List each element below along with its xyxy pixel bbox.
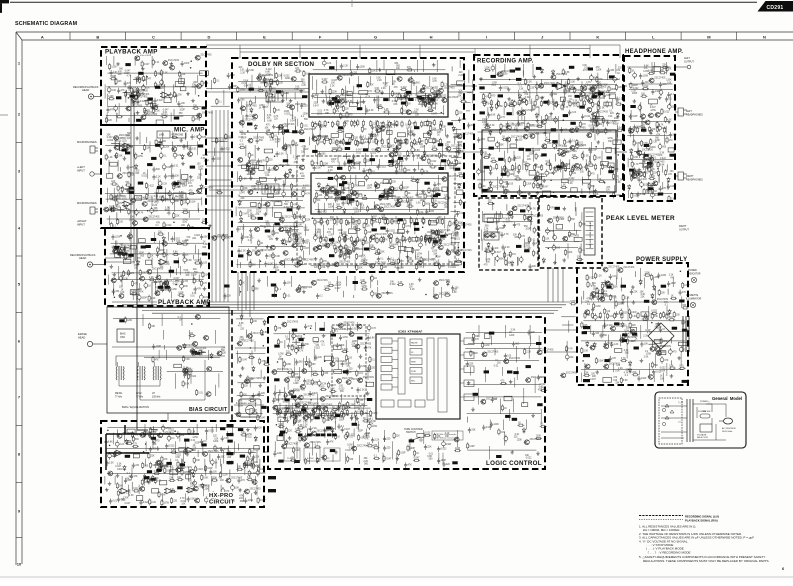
capacitor C261 <box>167 434 171 442</box>
resistor R466 <box>552 104 559 106</box>
capacitor C339 <box>313 234 317 242</box>
wire <box>478 131 619 133</box>
resistor R329 <box>257 89 264 91</box>
svg-text:0.01: 0.01 <box>295 378 300 380</box>
wire <box>179 433 181 442</box>
capacitor C297 <box>300 103 303 109</box>
wire <box>380 128 382 140</box>
wire <box>107 427 258 429</box>
capacitor C276 <box>244 462 247 468</box>
capacitor C278 <box>209 469 212 475</box>
resistor R449 <box>524 78 526 85</box>
resistor R257 <box>202 271 204 278</box>
wire <box>243 493 245 501</box>
svg-text:2SC1740S: 2SC1740S <box>330 243 342 245</box>
wire <box>401 259 403 268</box>
svg-text:1K: 1K <box>295 406 298 408</box>
resistor R374 <box>336 148 343 150</box>
wire <box>165 188 167 202</box>
wire <box>282 215 284 223</box>
svg-text:2.2K: 2.2K <box>151 502 156 504</box>
resistor R402 <box>437 229 439 236</box>
resistor R346 <box>255 183 262 185</box>
capacitor C350 <box>322 59 326 67</box>
transistor Q273 <box>283 251 289 256</box>
transistor Q210 <box>113 136 119 141</box>
svg-text:2SC1740S: 2SC1740S <box>439 230 451 232</box>
wire <box>108 72 203 74</box>
svg-text:0.047: 0.047 <box>406 127 412 129</box>
svg-text:2.2K: 2.2K <box>381 88 386 90</box>
svg-text:0.022: 0.022 <box>283 402 289 404</box>
junction <box>141 153 143 155</box>
capacitor C326 <box>453 134 456 140</box>
wire <box>167 370 223 372</box>
svg-text:100P: 100P <box>558 169 564 171</box>
wire <box>309 242 311 255</box>
svg-text:3.3K: 3.3K <box>359 240 364 242</box>
svg-text:2SC1740S: 2SC1740S <box>137 91 149 93</box>
svg-text:2SC1740S: 2SC1740S <box>250 378 262 380</box>
svg-text:0.022: 0.022 <box>143 502 149 504</box>
frame outer left line <box>15 32 17 565</box>
svg-text:4.7K: 4.7K <box>132 444 137 446</box>
wire <box>400 242 402 253</box>
ground <box>272 125 276 129</box>
wire <box>406 251 408 264</box>
wire <box>256 485 258 496</box>
wire <box>319 128 321 139</box>
svg-text:INPUT: INPUT <box>77 222 85 226</box>
svg-text:2.2K: 2.2K <box>597 276 602 278</box>
wire <box>516 257 518 266</box>
wire <box>451 163 462 165</box>
transistor Q270 <box>291 243 297 248</box>
wire <box>107 106 201 108</box>
resistor R376 <box>407 150 409 157</box>
resistor R252 <box>172 253 179 255</box>
wire <box>481 239 483 251</box>
capacitor C353 <box>356 64 359 70</box>
svg-text:100P: 100P <box>273 267 279 269</box>
resistor R310 <box>177 479 184 481</box>
svg-text:2.2K: 2.2K <box>377 80 382 82</box>
transistor Q313 <box>522 134 528 139</box>
capacitor C370 <box>581 114 584 120</box>
svg-text:22K: 22K <box>181 74 186 76</box>
IC IC351 <box>457 81 465 85</box>
junction <box>274 155 276 157</box>
svg-text:1/2W: 1/2W <box>559 219 565 221</box>
svg-text:47K: 47K <box>118 71 123 73</box>
wire <box>451 66 453 71</box>
wire <box>261 198 263 208</box>
resistor R420 <box>356 264 358 271</box>
svg-text:47K: 47K <box>599 79 604 81</box>
resistor R458 <box>489 92 491 99</box>
wire <box>111 242 204 244</box>
resistor R465 <box>533 104 535 111</box>
resistor R394 <box>363 222 365 229</box>
svg-text:47K: 47K <box>435 193 440 195</box>
svg-text:100P: 100P <box>671 283 677 285</box>
svg-text:47K: 47K <box>156 222 161 224</box>
capacitor C274 <box>160 464 163 470</box>
corner registration mark <box>0 0 9 3</box>
capacitor C290 <box>204 496 208 504</box>
svg-text:10K: 10K <box>588 162 593 164</box>
IC IC323 <box>170 470 178 475</box>
svg-text:10K: 10K <box>368 422 373 424</box>
svg-text:4.7K: 4.7K <box>301 85 306 87</box>
resistor R238 <box>128 208 130 215</box>
wire <box>337 155 339 163</box>
ground <box>113 273 117 277</box>
svg-text:6.8K: 6.8K <box>427 456 432 458</box>
IC IC366 <box>543 191 551 196</box>
svg-text:4.7K: 4.7K <box>367 91 372 93</box>
net label <box>238 428 243 431</box>
svg-text:120K: 120K <box>367 188 373 190</box>
svg-text:0.047: 0.047 <box>485 248 491 250</box>
svg-text:0.022: 0.022 <box>190 376 196 378</box>
svg-text:0.022: 0.022 <box>427 196 433 198</box>
IC IC335 <box>274 213 281 218</box>
IC IC308 <box>110 162 117 166</box>
capacitor C257 <box>205 428 208 434</box>
capacitor C396 <box>500 232 503 238</box>
resistor R298 <box>194 465 196 472</box>
resistor R364 <box>319 134 321 141</box>
svg-text:22K: 22K <box>532 266 537 268</box>
svg-text:3.3K: 3.3K <box>242 178 247 180</box>
svg-text:2SC1740S: 2SC1740S <box>282 409 294 411</box>
transistor Q305 <box>516 111 522 116</box>
wire <box>139 283 141 291</box>
resistor R404 <box>343 236 345 243</box>
resistor R332 <box>249 100 251 107</box>
IC IC363 <box>529 170 536 175</box>
resistor R288 <box>214 445 216 452</box>
wire <box>162 493 164 502</box>
ground <box>314 257 318 261</box>
resistor R436 <box>252 285 254 292</box>
wire <box>218 373 220 387</box>
svg-text:0.01: 0.01 <box>286 296 291 298</box>
svg-text:4.7K: 4.7K <box>586 82 591 84</box>
svg-text:1K: 1K <box>537 124 540 126</box>
svg-text:2SC1740S: 2SC1740S <box>460 224 472 226</box>
resistor R418 <box>319 263 321 270</box>
wire <box>154 232 156 243</box>
svg-text:2SC1740S: 2SC1740S <box>260 226 272 228</box>
capacitor C394 <box>496 226 499 232</box>
svg-text:10K: 10K <box>267 118 272 120</box>
svg-text:0.01: 0.01 <box>546 161 551 163</box>
wire <box>291 189 293 198</box>
net label <box>145 245 150 248</box>
capacitor C373 <box>517 121 520 127</box>
svg-text:4.7K: 4.7K <box>359 405 364 407</box>
wire <box>433 287 435 298</box>
ground <box>347 221 351 225</box>
svg-text:105 kHz: 105 kHz <box>152 396 161 398</box>
wire <box>414 225 416 235</box>
capacitor C225 <box>170 163 173 169</box>
svg-text:47K: 47K <box>408 465 413 467</box>
capacitor C275 <box>210 459 214 467</box>
resistor R339 <box>292 139 294 146</box>
frame column tick <box>514 32 516 40</box>
svg-text:REGULATIONS. THESE COMPONENTS: REGULATIONS. THESE COMPONENTS MUST ONLY … <box>643 559 769 563</box>
svg-text:0.01: 0.01 <box>192 149 197 151</box>
wire <box>522 70 524 76</box>
svg-text:1/2W: 1/2W <box>324 287 330 289</box>
svg-text:10K: 10K <box>301 152 306 154</box>
svg-text:2SC1740S: 2SC1740S <box>168 60 180 62</box>
wire <box>506 257 508 266</box>
svg-text:0.022: 0.022 <box>525 97 531 99</box>
resistor R277 <box>192 349 194 356</box>
wire <box>530 220 532 231</box>
ground <box>596 110 600 114</box>
svg-text:1K: 1K <box>186 254 189 256</box>
wire <box>201 197 203 205</box>
svg-text:6.8K: 6.8K <box>185 384 190 386</box>
wire <box>269 84 271 94</box>
wire <box>193 255 195 260</box>
wire <box>585 159 587 171</box>
ground <box>527 192 531 196</box>
svg-text:1/2W: 1/2W <box>446 444 452 446</box>
resistor R455 <box>608 85 610 92</box>
svg-text:4.7K: 4.7K <box>621 358 626 360</box>
capacitor C284 <box>221 487 225 495</box>
wire <box>589 185 591 194</box>
svg-text:10K: 10K <box>572 88 577 90</box>
svg-text:47K: 47K <box>333 414 338 416</box>
resistor R510 <box>588 183 590 190</box>
ground <box>534 163 538 167</box>
svg-text:22K: 22K <box>329 193 334 195</box>
wire <box>245 82 247 88</box>
net label <box>479 86 484 89</box>
resistor R284 <box>240 434 247 436</box>
transistor Q234 <box>182 369 188 374</box>
capacitor C331 <box>351 160 355 168</box>
capacitor C321 <box>319 124 322 130</box>
svg-text:22K: 22K <box>585 301 590 303</box>
svg-text:120K: 120K <box>115 237 121 239</box>
svg-text:4.7K: 4.7K <box>564 107 569 109</box>
resistor R512 <box>505 188 507 195</box>
svg-text:1/2W: 1/2W <box>389 244 395 246</box>
svg-text:47K: 47K <box>137 258 142 260</box>
svg-text:N: N <box>763 35 766 40</box>
wire <box>353 295 355 298</box>
svg-text:T△ F1: T△ F1 <box>678 401 683 404</box>
wire <box>453 165 455 171</box>
capacitor C230 <box>173 181 176 187</box>
svg-text:6.8K: 6.8K <box>491 115 496 117</box>
resistor R441 <box>397 284 404 286</box>
wire <box>285 171 287 184</box>
svg-text:33K: 33K <box>393 104 398 106</box>
svg-text:120K: 120K <box>484 68 490 70</box>
wire <box>252 163 254 173</box>
wire <box>108 452 257 454</box>
net label <box>609 75 614 78</box>
ground <box>563 84 567 88</box>
svg-text:6.8K: 6.8K <box>633 157 638 159</box>
resistor R341 <box>248 152 250 159</box>
capacitor C301 <box>256 138 259 144</box>
svg-text:1K: 1K <box>332 407 335 409</box>
net label <box>192 351 197 354</box>
page bottom edge line <box>0 576 793 578</box>
wire <box>129 75 131 89</box>
svg-text:0.047: 0.047 <box>239 193 245 195</box>
resistor R352 <box>294 213 296 220</box>
net label <box>588 68 593 71</box>
wire <box>279 224 281 232</box>
wire <box>123 433 125 443</box>
junction <box>550 180 552 182</box>
wire <box>592 185 594 194</box>
wire <box>315 225 317 235</box>
capacitor C341 <box>380 236 384 244</box>
resistor R320 <box>220 495 222 502</box>
svg-text:0.022: 0.022 <box>275 139 281 141</box>
net label <box>448 122 453 125</box>
wire <box>239 195 304 197</box>
svg-text:■ PB9 Without Counterweight: ■ PB9 Without Counterweight <box>434 437 459 440</box>
svg-text:3.3K: 3.3K <box>413 144 418 146</box>
IC IC343 <box>429 220 437 225</box>
wire <box>597 81 599 93</box>
svg-text:6.8K: 6.8K <box>415 150 420 152</box>
svg-text:10K: 10K <box>400 267 405 269</box>
net label <box>177 486 182 489</box>
svg-text:3.3K: 3.3K <box>297 421 302 423</box>
resistor R369 <box>323 138 330 140</box>
svg-text:HEAD: HEAD <box>82 88 89 92</box>
wire <box>247 250 249 260</box>
capacitor C237 <box>171 236 174 242</box>
resistor R211 <box>125 91 127 98</box>
net label <box>519 148 524 151</box>
wire <box>273 66 275 79</box>
transistor Q239 <box>202 452 208 457</box>
capacitor C243 <box>119 275 123 283</box>
svg-text:2SC1740S: 2SC1740S <box>146 114 158 116</box>
svg-text:4.7K: 4.7K <box>287 417 292 419</box>
ground <box>413 168 417 172</box>
wire <box>374 233 376 242</box>
transistor Q297 <box>295 288 301 293</box>
wire <box>350 60 352 71</box>
svg-text:10K: 10K <box>119 287 124 289</box>
wire <box>180 266 182 275</box>
transistor Q264 <box>291 192 297 197</box>
svg-text:22K: 22K <box>662 65 667 67</box>
wire <box>198 208 200 212</box>
wire <box>113 318 220 320</box>
svg-text:0.022: 0.022 <box>168 430 174 432</box>
wire <box>132 292 134 301</box>
svg-text:4.7K: 4.7K <box>378 141 383 143</box>
wire <box>129 232 131 241</box>
svg-text:100P: 100P <box>457 142 463 144</box>
wire <box>108 160 110 174</box>
capacitor C305 <box>268 167 271 173</box>
svg-text:0.047: 0.047 <box>195 260 201 262</box>
net label <box>501 173 506 176</box>
wire <box>204 459 206 472</box>
ground <box>156 446 160 450</box>
svg-text:240V 50Hz: 240V 50Hz <box>722 431 732 433</box>
capacitor C209 <box>169 92 173 100</box>
svg-text:1K: 1K <box>408 193 411 195</box>
net label <box>138 182 143 185</box>
svg-text:0.022: 0.022 <box>175 455 181 457</box>
transistor Q281 <box>420 156 426 161</box>
wire <box>215 459 217 469</box>
svg-text:3.3K: 3.3K <box>117 463 122 465</box>
frame column tick <box>625 32 627 40</box>
wire <box>591 142 593 153</box>
resistor R401 <box>365 229 367 236</box>
ground <box>445 134 449 138</box>
svg-text:0.047: 0.047 <box>322 79 328 81</box>
wire <box>155 188 157 199</box>
svg-text:1/2W: 1/2W <box>624 330 630 332</box>
resistor R272 <box>196 389 198 396</box>
transistor Q253 <box>289 105 295 110</box>
wire <box>152 441 154 449</box>
wire <box>528 239 530 252</box>
IC IC340 <box>398 133 406 137</box>
svg-text:33K: 33K <box>135 173 140 175</box>
svg-text:1/2W: 1/2W <box>440 239 446 241</box>
wire <box>133 148 135 156</box>
svg-text:2SC1740S: 2SC1740S <box>303 260 315 262</box>
wire <box>283 259 285 268</box>
diode D210 <box>254 436 257 442</box>
capacitor C329 <box>455 149 458 155</box>
resistor R390 <box>404 167 406 174</box>
svg-text:0.047: 0.047 <box>335 288 341 290</box>
wire <box>113 188 115 202</box>
resistor R437 <box>275 286 277 293</box>
wire <box>379 159 381 166</box>
transistor Q252 <box>240 106 246 111</box>
svg-text:100P: 100P <box>246 465 252 467</box>
resistor R259 <box>148 279 155 281</box>
svg-text:0.022: 0.022 <box>140 101 146 103</box>
junction <box>447 234 449 236</box>
svg-text:47K: 47K <box>134 265 139 267</box>
transistor Q279 <box>375 147 381 152</box>
resistor R299 <box>205 465 207 472</box>
capacitor C205 <box>107 86 111 94</box>
svg-text:1K: 1K <box>242 282 245 284</box>
svg-text:22K: 22K <box>400 161 405 163</box>
capacitor C374 <box>554 116 558 124</box>
svg-text:1/2W: 1/2W <box>239 89 245 91</box>
svg-text:0.047: 0.047 <box>297 224 303 226</box>
svg-text:120K: 120K <box>339 345 345 347</box>
